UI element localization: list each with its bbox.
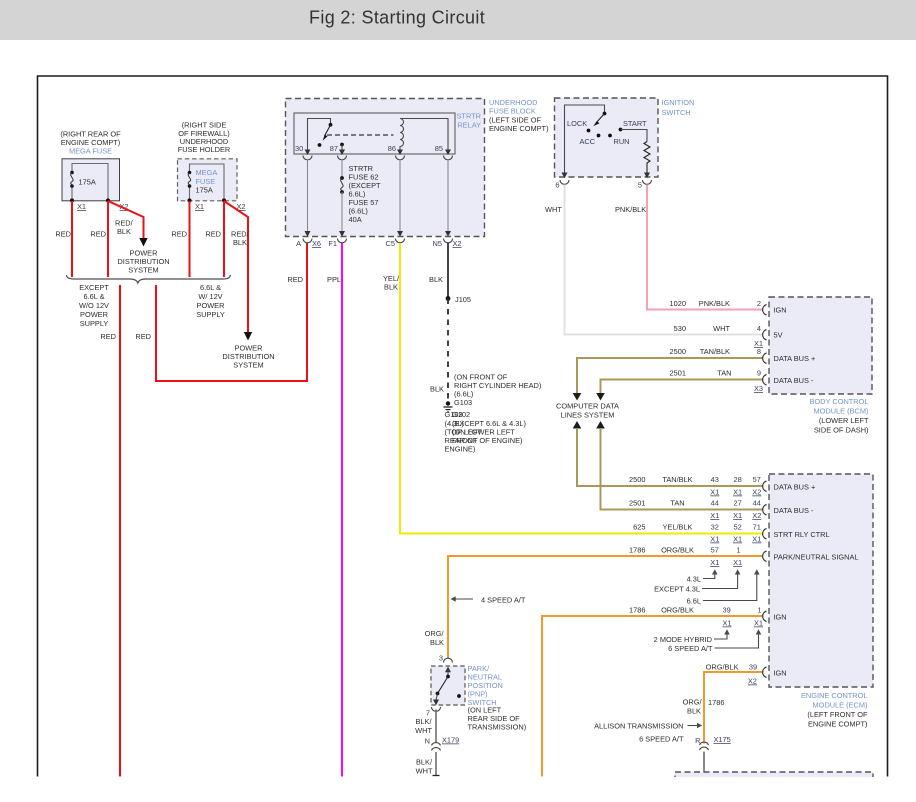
svg-text:ORG/BLK: ORG/BLK [661,546,694,555]
svg-text:MEGA: MEGA [196,168,218,177]
wire pin87 to starter fuse [341,160,343,177]
relay pin 87 contact [330,143,344,154]
svg-text:SUPPLY: SUPPLY [80,319,109,328]
svg-text:FUSE HOLDER: FUSE HOLDER [178,145,231,154]
fuse element MEGA FUSE 175A [188,168,218,195]
brace combining supply variants [67,275,231,283]
wire pin86 to terminal C5 [399,160,401,232]
svg-text:2: 2 [757,299,761,308]
wire RED from brace down off-page (left) [100,285,120,777]
svg-text:X2: X2 [752,488,761,497]
svg-text:X1: X1 [733,535,742,544]
svg-text:BLK: BLK [687,707,701,716]
terminal X2 of mega fuse holder [222,198,246,211]
svg-text:COMPUTER DATA: COMPUTER DATA [556,402,619,411]
ground caption G102 (overlapped) [452,410,526,445]
svg-text:START: START [623,119,647,128]
svg-text:N5: N5 [433,239,442,248]
svg-text:5V: 5V [774,331,783,340]
svg-text:BLK: BLK [384,283,398,292]
BCM caption [810,397,869,435]
svg-text:X1: X1 [710,511,719,520]
svg-text:PPL: PPL [327,275,341,284]
svg-text:625: 625 [633,523,645,532]
svg-text:STRTR: STRTR [457,112,482,121]
svg-text:44: 44 [711,499,719,508]
svg-text:W/O 12V: W/O 12V [79,301,109,310]
svg-text:52: 52 [733,523,741,532]
svg-text:X1: X1 [77,202,86,211]
svg-text:1786: 1786 [629,546,645,555]
svg-text:40A: 40A [349,215,362,224]
svg-text:RED: RED [135,332,151,341]
svg-text:28: 28 [733,475,741,484]
svg-text:X2: X2 [453,239,462,248]
svg-text:6.6L &: 6.6L & [200,283,221,292]
svg-text:175A: 175A [196,186,213,195]
svg-text:6 SPEED A/T: 6 SPEED A/T [639,735,684,744]
svg-text:RED: RED [287,275,303,284]
terminal labels A X6 F1 C5 N5 X2 [296,239,461,248]
ground location caption (6.6L) [454,373,541,408]
svg-text:BLK: BLK [429,275,443,284]
svg-text:EXCEPT 4.3L: EXCEPT 4.3L [654,585,700,594]
ECM data bus - row labels [629,499,814,521]
fuse block bottom terminal arrows and bells [303,231,453,243]
svg-text:TRANSMISSION): TRANSMISSION) [468,723,527,732]
svg-text:X1: X1 [752,535,761,544]
svg-text:DATA BUS -: DATA BUS - [774,506,815,515]
svg-text:PARK/NEUTRAL SIGNAL: PARK/NEUTRAL SIGNAL [774,553,859,562]
svg-text:ENGINE CONTROL: ENGINE CONTROL [801,691,868,700]
svg-text:MODULE (ECM): MODULE (ECM) [812,701,867,710]
svg-text:YEL/BLK: YEL/BLK [663,523,693,532]
wire PNK/BLK ignition pin5 to BCM IGN [615,185,763,310]
wire TAN/BLK computer data to ECM data bus + [573,421,763,486]
svg-text:POWER: POWER [80,310,108,319]
wire RED/BLK from X2 to power distribution [108,201,144,238]
svg-text:1: 1 [757,606,761,615]
svg-text:POWER: POWER [197,301,225,310]
svg-text:27: 27 [733,499,741,508]
svg-text:X1: X1 [195,202,204,211]
svg-text:BLK: BLK [117,227,131,236]
off-page arrow power distribution system (left) [117,238,169,275]
ECM strt rly ctrl row labels [633,523,829,544]
svg-text:BLK: BLK [233,238,247,247]
svg-text:RUN: RUN [614,137,630,146]
svg-text:ORG/: ORG/ [425,629,445,638]
svg-text:WHT: WHT [415,726,432,735]
wire RED from holder X1 down to brace [171,201,189,277]
svg-text:9: 9 [757,369,761,378]
svg-text:X3: X3 [754,384,763,393]
wire RED from brace to fuse block terminal A [135,243,307,381]
ignition switch box (dashed) [555,98,659,177]
underhood fuse block box (dashed) [286,99,485,237]
svg-text:ENGINE): ENGINE) [445,445,476,454]
svg-text:WHT: WHT [713,324,730,333]
wire TAN/BLK 2500 BCM data bus + to computer data [573,347,816,401]
svg-text:TAN/BLK: TAN/BLK [700,347,730,356]
svg-text:57: 57 [711,546,719,555]
svg-text:DATA BUS +: DATA BUS + [774,354,816,363]
relay switch arm [318,125,331,147]
svg-text:F1: F1 [328,239,337,248]
svg-text:FRONT OF ENGINE): FRONT OF ENGINE) [452,436,523,445]
ignition switch position contacts [567,119,647,146]
mega fuse location caption [60,130,121,156]
PNP switch caption [468,664,527,732]
svg-text:4.3L: 4.3L [687,575,701,584]
mega fuse internal bus wire [72,164,108,201]
svg-text:32: 32 [711,523,719,532]
wire PPL from F1 down off-page [327,243,342,777]
svg-text:SUPPLY: SUPPLY [196,310,225,319]
svg-text:SWITCH: SWITCH [662,108,691,117]
svg-text:1: 1 [736,546,740,555]
engine control module box (dashed) [769,474,873,687]
svg-text:W/ 12V: W/ 12V [198,292,222,301]
variant label except 6.6L [79,283,109,328]
off-page arrow power distribution system (center) [222,332,274,370]
svg-text:43: 43 [711,475,719,484]
variant links 2 mode hybrid / 6 speed a/t [654,629,762,653]
wire RED from X2 down to brace [90,201,108,277]
svg-text:44: 44 [753,499,761,508]
svg-text:4: 4 [757,324,761,333]
relay pin arrows and connector bells [303,150,453,160]
wire ORG/BLK 1786 park/neutral signal row [448,546,859,659]
wire pin30 to terminal A [307,160,309,232]
svg-text:X2: X2 [752,511,761,520]
svg-text:2500: 2500 [629,475,645,484]
svg-text:G103: G103 [454,398,472,407]
svg-text:BLK: BLK [430,385,444,394]
svg-text:ALLISON TRANSMISSION: ALLISON TRANSMISSION [594,722,683,731]
svg-text:RED: RED [90,230,106,239]
svg-text:RED: RED [205,230,221,239]
svg-text:TAN: TAN [717,369,731,378]
wire RED from X1 down to brace [55,201,72,277]
wire to starter (bottom) [703,752,705,773]
svg-text:WHT: WHT [416,767,433,776]
node computer data lines system [556,402,619,420]
svg-text:LOCK: LOCK [567,119,587,128]
wire starter fuse to terminal F1 [341,192,343,232]
svg-text:2501: 2501 [670,369,686,378]
svg-text:MEGA FUSE: MEGA FUSE [69,147,112,156]
svg-text:2500: 2500 [670,347,686,356]
svg-text:X179: X179 [442,736,459,745]
underhood fuse holder caption [178,121,231,155]
splice J105 [446,295,471,304]
ignition switch pin 6 wire and wiper [565,105,607,177]
svg-text:SYSTEM: SYSTEM [233,361,263,370]
starter fuse STRTR FUSE 62/57 40A [340,164,381,224]
svg-text:BLK: BLK [430,638,444,647]
svg-text:N: N [425,737,430,746]
svg-text:BLK/: BLK/ [415,717,432,726]
wire RED from holder X2 down to brace [205,201,224,277]
svg-text:BODY CONTROL: BODY CONTROL [810,397,869,406]
wire BLK dashed to ground [430,299,448,404]
svg-text:86: 86 [388,144,396,153]
svg-text:X175: X175 [714,735,731,744]
terminal X2 of mega fuse [106,198,129,211]
svg-text:RED: RED [100,332,116,341]
svg-text:(LEFT FRONT OF: (LEFT FRONT OF [807,710,868,719]
wire WHT ignition pin6 to BCM 5V [545,185,763,335]
svg-text:A: A [296,239,301,248]
PNP switch contacts [436,667,461,701]
svg-text:X1: X1 [754,619,763,628]
svg-text:X1: X1 [710,535,719,544]
svg-text:STRT RLY CTRL: STRT RLY CTRL [774,530,830,539]
svg-text:ORG/BLK: ORG/BLK [706,663,739,672]
svg-text:X1: X1 [733,488,742,497]
relay pin 30 contact wire [295,119,332,154]
svg-text:IGN: IGN [774,613,787,622]
svg-text:MODULE (BCM): MODULE (BCM) [813,407,868,416]
svg-text:SIDE OF DASH): SIDE OF DASH) [814,426,869,435]
relay coil [388,119,448,154]
terminal X1 of mega fuse [70,198,86,211]
underhood fuse block caption [489,98,549,133]
svg-text:X1: X1 [722,619,731,628]
svg-text:1786: 1786 [708,698,724,707]
allison transmission variant label [594,722,702,744]
ignition switch pin arrows and bells [555,173,651,190]
body control module box (dashed) [769,297,872,394]
mega fuse holder box (dashed) [178,159,238,201]
svg-text:71: 71 [753,523,761,532]
svg-text:X1: X1 [733,558,742,567]
svg-text:ORG/BLK: ORG/BLK [661,606,694,615]
svg-text:39: 39 [749,663,757,672]
svg-text:ENGINE COMPT): ENGINE COMPT) [489,124,549,133]
svg-text:1020: 1020 [670,299,686,308]
wire ORG/BLK labels above PNP [425,629,445,663]
svg-text:30: 30 [295,144,303,153]
ground caption G103 4.3L (overlapped) [445,410,483,454]
wire BLK/WHT to ground (clipped) [416,752,440,776]
svg-text:530: 530 [674,324,686,333]
svg-text:WHT: WHT [545,205,562,214]
svg-text:4 SPEED A/T: 4 SPEED A/T [481,596,526,605]
title bar [0,0,916,40]
svg-text:SYSTEM: SYSTEM [128,266,158,275]
ECM data bus + row labels [629,475,815,497]
starter relay box [294,112,481,155]
svg-text:IGN: IGN [774,669,787,678]
wire ORG/BLK 1786 second IGN row [683,663,787,744]
ECM caption [801,691,868,729]
mega fuse box (right rear of engine compt) [62,159,120,201]
wire ORG/BLK 1786 IGN row [542,606,787,777]
relay actuation dashed link [327,134,394,136]
svg-text:RED: RED [171,230,187,239]
variant label 6.6L w/12V [196,283,225,319]
svg-text:6 SPEED A/T: 6 SPEED A/T [668,644,713,653]
svg-text:6: 6 [555,181,559,190]
wire TAN 2501 BCM data bus - to computer data [596,369,814,401]
ground G103/G102 [444,401,453,412]
svg-text:RELAY: RELAY [457,121,481,130]
svg-text:3: 3 [439,654,443,663]
svg-text:1786: 1786 [629,606,645,615]
svg-text:X1: X1 [710,558,719,567]
svg-text:PNK/BLK: PNK/BLK [615,205,646,214]
bottom clip (viewport cut) [0,777,916,802]
wire pin85 to terminal N5 [447,160,449,232]
variant arrow 4 speed a/t [451,596,526,605]
svg-text:X2: X2 [748,677,757,686]
ignition switch resistor to pin 5 [621,130,651,177]
svg-text:X6: X6 [312,239,321,248]
svg-text:C5: C5 [386,239,395,248]
wire RED/BLK from holder X2 to power distribution [224,201,250,332]
ignition switch caption [662,98,695,117]
PNP switch bottom arrow and bell [426,700,441,718]
svg-text:ENGINE COMPT): ENGINE COMPT) [808,720,868,729]
wire BLK/WHT from PNP pin 7 [415,710,436,743]
svg-text:(LOWER LEFT: (LOWER LEFT [819,416,869,425]
svg-text:EXCEPT: EXCEPT [79,283,109,292]
fuse element 175A [70,171,96,188]
connector X179 [425,736,460,751]
svg-text:39: 39 [722,606,730,615]
svg-text:TAN: TAN [670,499,684,508]
wire YEL/BLK from C5 to ECM STRT RLY CTRL [383,243,763,534]
park/neutral position switch box (dashed) [431,666,465,705]
svg-text:2501: 2501 [629,499,645,508]
wire TAN computer data to ECM data bus - [596,421,763,510]
svg-text:85: 85 [435,144,443,153]
svg-text:FUSE BLOCK: FUSE BLOCK [489,107,536,116]
svg-text:ACC: ACC [580,137,596,146]
svg-text:6.6L: 6.6L [687,597,701,606]
svg-text:G102: G102 [452,410,470,419]
connector X175 [695,735,731,750]
starter box (bottom, clipped) [675,772,873,802]
svg-text:X1: X1 [733,511,742,520]
svg-text:5: 5 [638,181,642,190]
mega fuse holder internal bus wire [190,164,225,201]
svg-text:BLK/: BLK/ [416,758,433,767]
svg-text:DATA BUS -: DATA BUS - [774,376,815,385]
svg-text:LINES SYSTEM: LINES SYSTEM [561,411,615,420]
svg-text:8: 8 [757,347,761,356]
BCM pin 4 5V row labels [674,324,783,348]
svg-text:RED: RED [55,230,71,239]
variant links 4.3L / except 4.3L / 6.6L [654,569,759,605]
svg-text:Fig 2: Starting Circuit: Fig 2: Starting Circuit [309,8,485,28]
svg-text:DATA BUS +: DATA BUS + [774,483,816,492]
PNP switch top bell and arrow [444,658,453,662]
BCM pin 2 IGN row labels [670,299,787,315]
wire BLK from N5 to splice J105 [429,243,448,299]
svg-text:87: 87 [330,144,338,153]
svg-text:IGNITION: IGNITION [662,98,695,107]
svg-text:X1: X1 [710,488,719,497]
svg-text:J105: J105 [455,295,471,304]
svg-text:ORG/: ORG/ [683,698,703,707]
terminal X1 of mega fuse holder [187,198,204,211]
svg-text:57: 57 [753,475,761,484]
svg-text:2 MODE HYBRID: 2 MODE HYBRID [654,635,712,644]
svg-text:TAN/BLK: TAN/BLK [662,475,692,484]
svg-text:6.6L &: 6.6L & [83,292,104,301]
svg-text:IGN: IGN [774,306,787,315]
svg-text:PNK/BLK: PNK/BLK [699,299,730,308]
svg-text:175A: 175A [79,178,96,187]
